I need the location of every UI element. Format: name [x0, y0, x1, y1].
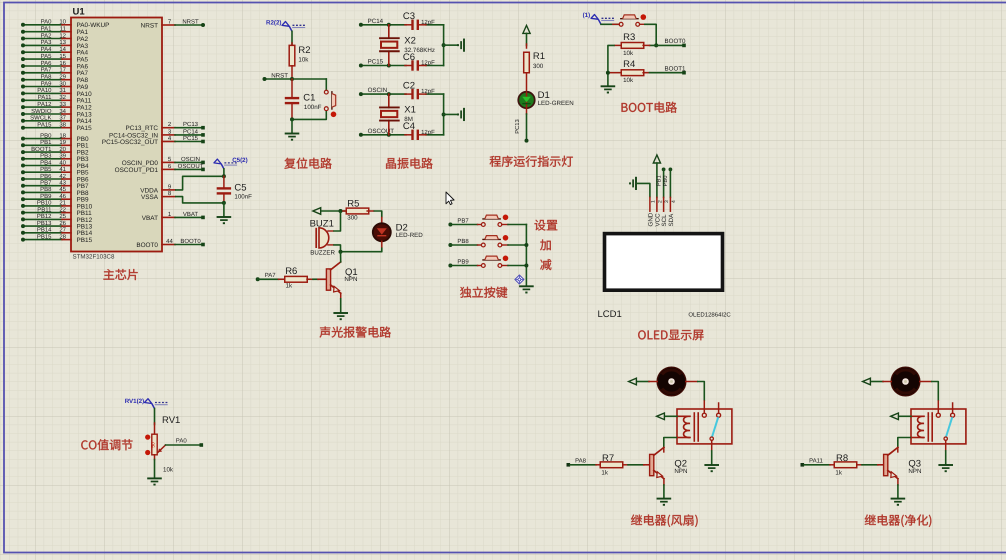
- wire buzzer top pin: [328, 211, 341, 231]
- svg-text:PA11: PA11: [809, 458, 823, 465]
- net PA11 wire: [801, 458, 831, 467]
- svg-text:R7: R7: [602, 453, 614, 464]
- wire boot button right: [613, 24, 656, 45]
- LED D2 LED-RED: [373, 218, 423, 248]
- caption CO adjust: [81, 439, 132, 450]
- U1 pin 8 VSSA wire to C5: [141, 190, 224, 203]
- svg-text:13: 13: [59, 39, 66, 46]
- ground reset: [285, 133, 300, 135]
- U1 pin 18 net PB0 wire: [21, 132, 89, 143]
- svg-text:21: 21: [59, 200, 66, 207]
- caption relay: [631, 514, 698, 526]
- capacitor C5 100nF: [217, 176, 252, 203]
- U1 pin 7 net NRST wire: [141, 19, 205, 30]
- svg-text:PA10: PA10: [37, 87, 52, 94]
- svg-text:PB1: PB1: [656, 175, 662, 186]
- svg-text:PA11: PA11: [38, 94, 52, 101]
- transistor Q1 NPN: [326, 262, 357, 293]
- svg-text:PA7: PA7: [265, 272, 277, 279]
- caption independent buttons: [460, 287, 507, 298]
- wire PB9 to rail: [508, 265, 526, 267]
- svg-text:RV1(2): RV1(2): [125, 398, 145, 405]
- power terminal up OLED: [653, 155, 660, 163]
- crystal X1 8M: [379, 94, 416, 135]
- IC U1 STM32F103C8 body: [71, 18, 162, 252]
- svg-text:28: 28: [59, 233, 66, 240]
- svg-text:18: 18: [59, 132, 66, 139]
- svg-text:PA1: PA1: [41, 26, 53, 33]
- svg-text:BOOT1: BOOT1: [31, 146, 52, 153]
- wire coil top: [900, 415, 912, 417]
- svg-text:300: 300: [533, 63, 544, 70]
- junction PC14 xtal: [387, 23, 391, 27]
- svg-text:11: 11: [60, 26, 67, 33]
- LED D1 LED-GREEN: [518, 90, 573, 108]
- wire RV1 top: [154, 409, 156, 425]
- U1 pin 12 net PA2 wire: [21, 32, 89, 43]
- svg-text:14: 14: [59, 46, 66, 53]
- svg-text:39: 39: [59, 153, 66, 160]
- junction boot rail R4: [606, 71, 610, 75]
- svg-text:32: 32: [59, 94, 66, 101]
- svg-text:10k: 10k: [623, 50, 634, 57]
- svg-text:40: 40: [59, 159, 66, 166]
- svg-text:C5(2): C5(2): [232, 157, 247, 164]
- U1 pin 17 net PA7 wire: [21, 67, 89, 78]
- svg-text:R1: R1: [533, 51, 545, 62]
- terminal flag R2(2): [266, 19, 306, 31]
- svg-text:R5: R5: [347, 199, 359, 210]
- U1 pin 29 net PA8 wire: [21, 74, 89, 85]
- svg-text:PB4: PB4: [40, 159, 52, 166]
- caption plus: [540, 239, 551, 250]
- junction PC15 xtal: [387, 64, 391, 68]
- power terminal left alarm: [313, 208, 321, 215]
- U1 pin 43 net PB7 wire: [21, 180, 89, 191]
- ground C5: [217, 216, 232, 218]
- wire power to motor: [872, 381, 892, 383]
- wire rail to ground: [444, 113, 458, 115]
- svg-text:10k: 10k: [623, 77, 634, 84]
- capacitor C4 12pF: [403, 121, 435, 140]
- terminal flag RV1(2): [125, 398, 168, 409]
- wire C5 top: [223, 169, 225, 176]
- svg-text:R2(2): R2(2): [266, 19, 281, 26]
- svg-text:4: 4: [671, 200, 677, 203]
- svg-text:PB9: PB9: [40, 193, 52, 200]
- svg-text:R8: R8: [836, 453, 848, 464]
- U1 pin 10 net PA0 wire: [21, 19, 109, 30]
- svg-text:45: 45: [59, 186, 66, 193]
- wire power to R1: [526, 33, 528, 45]
- svg-text:BUZ1: BUZ1: [310, 218, 334, 229]
- svg-text:PA15: PA15: [37, 122, 52, 129]
- svg-text:16: 16: [59, 60, 66, 67]
- caption relay: [865, 515, 932, 527]
- svg-text:VSSA: VSSA: [141, 194, 159, 201]
- push button boot: [619, 22, 623, 26]
- wire buttons rail: [525, 225, 527, 286]
- svg-text:PC15: PC15: [368, 59, 384, 66]
- ground relay contact: [938, 464, 953, 466]
- caption main chip: [103, 269, 137, 280]
- svg-text:(1): (1): [583, 12, 591, 19]
- wire net OSCOUT: [359, 128, 444, 137]
- wire OLED SDA net PB0: [662, 168, 672, 198]
- U1 pin 30 net PA9 wire: [21, 80, 89, 91]
- caption OLED display: [638, 330, 703, 340]
- power terminal left relay coil: [657, 413, 665, 420]
- svg-text:OSCIN_PD0: OSCIN_PD0: [122, 160, 159, 167]
- LCD1 pin 4 SDA: [668, 197, 677, 226]
- U1 pin 9 VDDA wire to C5: [140, 176, 224, 194]
- svg-text:GND: GND: [647, 212, 654, 226]
- svg-text:OSCIN: OSCIN: [181, 156, 200, 163]
- svg-text:PC14: PC14: [183, 128, 199, 135]
- U1 pin 40 net PB4 wire: [21, 159, 89, 170]
- U1 pin 46 net PB9 wire: [21, 193, 89, 204]
- capacitor C2 12pF: [403, 81, 435, 100]
- svg-text:12pF: 12pF: [421, 88, 435, 95]
- svg-text:33: 33: [59, 101, 66, 108]
- U1 pin 32 net PA11 wire: [21, 94, 92, 105]
- svg-text:PC15: PC15: [183, 135, 199, 142]
- wire relay contact to ground: [945, 451, 947, 465]
- OLED display LCD1 OLED12864I2C: [605, 234, 723, 291]
- svg-text:PB11: PB11: [37, 206, 52, 213]
- svg-text:BUZZER: BUZZER: [310, 250, 335, 257]
- svg-text:PB13: PB13: [37, 220, 52, 227]
- push button PB8: [478, 235, 509, 247]
- U1 pin 25 net PB12 wire: [21, 213, 93, 224]
- svg-text:300: 300: [347, 215, 358, 222]
- svg-text:PB14: PB14: [37, 227, 52, 234]
- svg-text:PA0: PA0: [176, 438, 188, 445]
- svg-text:R2: R2: [298, 45, 310, 56]
- wire Q1 emitter to ground: [340, 293, 342, 312]
- svg-text:PB0: PB0: [40, 132, 52, 139]
- net PB9 wire: [448, 259, 477, 268]
- ground Q2: [657, 498, 672, 500]
- wire BOOT1 net: [650, 66, 687, 75]
- svg-text:1k: 1k: [835, 470, 842, 477]
- svg-text:37: 37: [59, 115, 66, 122]
- wire to ground reset: [291, 119, 293, 133]
- ground RV1: [147, 477, 162, 479]
- svg-text:10: 10: [59, 19, 66, 26]
- svg-text:PC13: PC13: [183, 121, 199, 128]
- wire coil top: [666, 415, 678, 417]
- terminal flag (1): [583, 12, 615, 24]
- potentiometer RV1 10k: [145, 415, 180, 474]
- svg-text:42: 42: [59, 173, 66, 180]
- wire button branch down: [325, 79, 327, 90]
- svg-text:10k: 10k: [298, 57, 309, 64]
- net PA0 wire from RV1: [166, 438, 204, 447]
- svg-text:NPN: NPN: [674, 468, 687, 475]
- svg-text:PA2: PA2: [41, 32, 53, 39]
- terminal flag C5(2): [214, 157, 248, 169]
- U1 pin 19 net PB1 wire: [21, 139, 89, 150]
- U1 pin 20 net BOOT1 wire: [21, 146, 89, 157]
- buzzer BUZ1: [310, 218, 336, 256]
- U1 pin 27 net PB14 wire: [21, 227, 93, 238]
- push button PB9: [478, 255, 509, 267]
- svg-text:PA9: PA9: [41, 80, 53, 87]
- LCD1 pin 3 SCL: [661, 197, 670, 226]
- U1 pin 15 net PA5 wire: [21, 53, 89, 64]
- svg-text:C3: C3: [403, 11, 415, 22]
- caption BOOT circuit: [622, 102, 677, 113]
- svg-text:44: 44: [166, 238, 173, 245]
- svg-text:R3: R3: [623, 32, 635, 43]
- svg-text:PB5: PB5: [40, 166, 52, 173]
- svg-text:43: 43: [59, 180, 66, 187]
- svg-text:PA6: PA6: [41, 60, 53, 67]
- net PB8 wire: [448, 238, 477, 247]
- resistor R7 1k: [596, 453, 628, 477]
- U1 pin 1 net VBAT wire: [142, 211, 205, 222]
- svg-text:17: 17: [59, 67, 66, 74]
- transistor Q2 NPN: [650, 447, 688, 478]
- junction alarm bottom: [339, 250, 343, 254]
- wire button to C1 bottom: [292, 111, 326, 119]
- svg-text:OSCOUT_PD1: OSCOUT_PD1: [115, 167, 159, 174]
- U1 pin 5 net OSCIN wire: [122, 156, 205, 167]
- svg-text:1k: 1k: [286, 283, 293, 290]
- svg-text:12pF: 12pF: [421, 19, 435, 26]
- svg-text:PB0: PB0: [662, 176, 669, 187]
- svg-text:PB3: PB3: [40, 153, 52, 160]
- svg-text:PA0: PA0: [41, 19, 53, 26]
- push button PB7: [478, 215, 509, 227]
- wire motor to relay: [920, 382, 939, 414]
- wire net PC14: [359, 18, 444, 27]
- svg-text:R6: R6: [285, 266, 297, 277]
- wire OLED VCC: [656, 163, 658, 197]
- caption crystal circuit: [386, 158, 433, 169]
- svg-text:RV1: RV1: [162, 415, 180, 426]
- U1 pin 14 net PA4 wire: [21, 46, 89, 57]
- junction rail: [442, 43, 446, 47]
- U1 pin 2 net PC13 wire: [125, 121, 204, 132]
- svg-text:3: 3: [664, 200, 670, 203]
- svg-text:20: 20: [59, 146, 66, 153]
- svg-text:BOOT0: BOOT0: [136, 242, 158, 249]
- svg-text:NPN: NPN: [344, 276, 357, 283]
- U1 pin 34 net SWDIO wire: [21, 108, 92, 119]
- wire Q1 collector: [340, 252, 342, 262]
- ground Q3: [891, 498, 906, 500]
- wire R2 top: [291, 31, 293, 45]
- svg-text:29: 29: [59, 74, 66, 81]
- wire coil bottom to collector: [898, 438, 911, 452]
- svg-text:OSCOUT: OSCOUT: [178, 163, 204, 170]
- origin marker: [515, 275, 524, 284]
- wire left rail boot: [608, 45, 615, 85]
- svg-text:OLED12864I2C: OLED12864I2C: [688, 312, 731, 319]
- wire power to R5: [322, 210, 348, 212]
- net PB7 wire: [448, 218, 477, 227]
- power terminal left relay coil: [891, 413, 899, 420]
- wire C5 to ground: [223, 203, 225, 217]
- wire PB8 to rail: [508, 244, 526, 246]
- U1 pin 28 net PB15 wire: [21, 233, 93, 244]
- svg-text:2: 2: [657, 200, 663, 203]
- motor Q2 load: [657, 367, 686, 396]
- capacitor C1 100nF: [285, 79, 322, 119]
- svg-text:VBAT: VBAT: [142, 215, 158, 222]
- svg-text:PB10: PB10: [37, 200, 52, 207]
- ground OLED left: [635, 177, 637, 190]
- ground crystal: [463, 108, 465, 121]
- ground relay contact: [704, 464, 719, 466]
- U1 pin 41 net PB5 wire: [21, 166, 89, 177]
- svg-text:PB1: PB1: [40, 139, 52, 146]
- svg-text:PA4: PA4: [41, 46, 53, 53]
- wire terminal to boot button: [601, 23, 619, 25]
- U1 pin 6 net OSCOUT wire: [115, 163, 205, 174]
- relay RLQ2: [677, 403, 732, 451]
- wire rail right: [443, 25, 445, 66]
- svg-text:1: 1: [650, 200, 656, 203]
- wire net PC15: [359, 59, 444, 68]
- U1 pin 44 net BOOT0 wire: [136, 238, 204, 249]
- svg-text:NPN: NPN: [908, 468, 921, 475]
- wire power to motor: [638, 381, 658, 383]
- svg-text:SWCLK: SWCLK: [30, 115, 51, 122]
- wire net OSCIN: [359, 87, 444, 96]
- wire R7 to Q2 base: [628, 464, 650, 466]
- junction rail PB8: [524, 243, 528, 247]
- svg-text:R4: R4: [623, 59, 635, 70]
- caption program running indicator: [490, 156, 573, 167]
- mouse cursor: [446, 192, 454, 205]
- svg-text:26: 26: [59, 220, 66, 227]
- U1 pin 22 net PB11 wire: [21, 206, 92, 217]
- svg-text:PC13_RTC: PC13_RTC: [125, 125, 158, 132]
- U1 pin 39 net PB3 wire: [21, 153, 89, 164]
- junction OSCIN xtal: [387, 92, 391, 96]
- svg-text:46: 46: [59, 193, 66, 200]
- svg-text:38: 38: [59, 122, 66, 129]
- svg-text:SDA: SDA: [668, 213, 675, 227]
- wire PB7 to rail: [508, 224, 526, 226]
- wire NRST to button: [292, 78, 326, 80]
- svg-text:PC14: PC14: [368, 18, 384, 25]
- svg-text:BOOT0: BOOT0: [180, 238, 201, 245]
- caption set: [535, 220, 558, 231]
- svg-text:PC13: PC13: [514, 119, 521, 134]
- U1 pin 26 net PB13 wire: [21, 220, 93, 231]
- U1 pin 3 net PC14 wire: [109, 128, 205, 139]
- wire D1 to PC13: [514, 108, 529, 143]
- svg-text:X2: X2: [404, 35, 416, 46]
- power terminal up D1: [523, 25, 530, 33]
- svg-text:PA7: PA7: [41, 67, 53, 74]
- power terminal left motor: [629, 378, 637, 385]
- svg-text:10k: 10k: [163, 466, 174, 473]
- svg-text:100nF: 100nF: [304, 104, 322, 111]
- svg-text:BOOT0: BOOT0: [665, 38, 687, 45]
- U1 pin 16 net PA6 wire: [21, 60, 89, 71]
- relay RLQ3: [911, 403, 966, 451]
- svg-text:SWDIO: SWDIO: [31, 108, 52, 115]
- svg-text:PB9: PB9: [457, 259, 469, 266]
- svg-text:X1: X1: [404, 105, 416, 116]
- svg-text:PA8: PA8: [575, 458, 587, 465]
- wire Q3 emitter to ground: [897, 479, 899, 499]
- transistor Q3 NPN: [884, 447, 922, 478]
- wire OLED SCL net PB1: [656, 168, 665, 198]
- svg-text:PB7: PB7: [40, 180, 52, 187]
- wire RV1 to ground: [154, 460, 156, 479]
- svg-text:30: 30: [59, 80, 66, 87]
- svg-text:VBAT: VBAT: [183, 211, 199, 218]
- resistor R8 1k: [830, 453, 862, 477]
- svg-text:50: 50: [151, 442, 157, 448]
- svg-text:PB7: PB7: [457, 218, 469, 225]
- net PA7 wire: [256, 272, 279, 281]
- svg-text:PA15: PA15: [77, 125, 93, 132]
- wire motor to relay: [686, 382, 705, 414]
- svg-text:PA3: PA3: [41, 39, 53, 46]
- resistor R3 10k: [615, 32, 650, 57]
- resistor R1 300: [524, 44, 545, 92]
- svg-text:PC15-OSC32_OUT: PC15-OSC32_OUT: [102, 139, 158, 146]
- resistor R5 300: [343, 199, 374, 222]
- svg-text:15: 15: [59, 53, 66, 60]
- wire R8 to Q3 base: [862, 464, 884, 466]
- svg-text:PB8: PB8: [40, 186, 52, 193]
- svg-text:OSCIN: OSCIN: [368, 87, 388, 94]
- wire D2 to alarm bottom: [341, 248, 382, 252]
- U1 pin 38 net PA15 wire: [21, 122, 92, 133]
- junction BOOT0: [654, 43, 658, 47]
- caption reset circuit: [284, 158, 331, 169]
- wire Q2 emitter to ground: [663, 479, 665, 499]
- caption alarm circuit: [320, 326, 391, 337]
- svg-text:12pF: 12pF: [421, 129, 435, 136]
- wire buzzer bottom pin: [328, 245, 341, 252]
- svg-text:BOOT1: BOOT1: [665, 66, 687, 73]
- U1 pin 31 net PA10 wire: [21, 87, 92, 98]
- svg-text:PB15: PB15: [37, 233, 52, 240]
- svg-text:STM32F103C8: STM32F103C8: [73, 253, 116, 260]
- svg-text:PA5: PA5: [41, 53, 53, 60]
- wire BOOT0 net: [650, 38, 687, 47]
- svg-text:41: 41: [59, 166, 66, 173]
- wire rail to ground: [444, 44, 458, 46]
- junction C5 bottom: [222, 201, 226, 205]
- svg-text:34: 34: [59, 108, 66, 115]
- svg-text:25: 25: [59, 213, 66, 220]
- svg-text:100nF: 100nF: [234, 194, 252, 201]
- crystal X2 32.768KHz: [379, 25, 435, 66]
- caption minus: [540, 259, 551, 270]
- net PA8 wire: [567, 458, 597, 467]
- U1 pin 37 net SWCLK wire: [21, 115, 92, 126]
- svg-text:1k: 1k: [601, 470, 608, 477]
- junction rail: [442, 112, 446, 116]
- U1 pin 4 net PC15 wire: [102, 135, 205, 146]
- svg-text:22: 22: [59, 206, 66, 213]
- ground boot: [601, 85, 616, 87]
- node NRST wire: [263, 72, 293, 81]
- LCD1 pin 1 GND: [647, 197, 656, 226]
- svg-text:PB8: PB8: [457, 238, 469, 245]
- resistor R4 10k: [608, 59, 650, 84]
